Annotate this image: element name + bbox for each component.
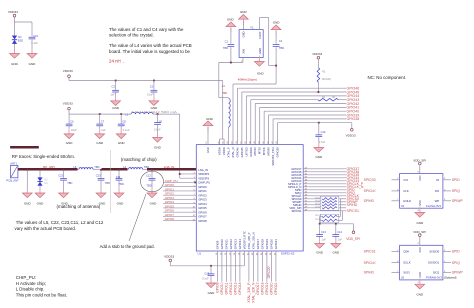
wire	[303, 183, 346, 185]
power VDD33 (VDD3P3 rail)	[68, 107, 71, 114]
junction	[153, 80, 155, 82]
divider line	[110, 150, 112, 213]
svg-text:C15: C15	[204, 271, 209, 275]
wire	[230, 251, 232, 282]
svg-text:XTAL_32K_N: XTAL_32K_N	[252, 282, 256, 303]
wire	[255, 104, 346, 145]
ground	[35, 187, 45, 198]
antenna ANT1	[10, 166, 18, 178]
capacitor C12	[149, 170, 156, 193]
diode D2 (ESD)	[37, 177, 42, 185]
svg-text:0.1uF: 0.1uF	[319, 140, 326, 144]
wire	[260, 107, 346, 144]
power VDD33 (VDDA rail)	[68, 75, 71, 81]
svg-text:TBD: TBD	[279, 46, 284, 50]
svg-text:ANT1: ANT1	[10, 162, 17, 166]
junction	[151, 169, 153, 171]
svg-text:1uF: 1uF	[101, 128, 106, 132]
svg-text:GPIO13: GPIO13	[234, 282, 238, 294]
wire	[31, 40, 33, 54]
capacitor C21	[29, 37, 36, 39]
capacitor C13	[316, 224, 323, 244]
svg-text:XTAL_N: XTAL_N	[231, 147, 235, 157]
svg-text:C22: C22	[58, 173, 63, 177]
junction	[319, 223, 321, 225]
junction	[120, 113, 122, 115]
wire	[303, 204, 346, 206]
wire	[242, 92, 346, 145]
svg-text:0.1uF: 0.1uF	[202, 277, 209, 281]
power VDD33 (top-left)	[13, 14, 16, 22]
wire	[303, 207, 346, 209]
ground	[147, 187, 157, 198]
svg-text:GND: GND	[150, 201, 158, 205]
svg-text:selection of the crystal.: selection of the crystal.	[109, 33, 154, 38]
wire	[230, 47, 232, 62]
capacitor C2	[151, 81, 158, 101]
wire	[303, 192, 346, 194]
svg-text:GND: GND	[227, 18, 235, 22]
capacitor C1	[228, 45, 235, 47]
svg-text:GPIO17: GPIO17	[256, 282, 260, 294]
junction	[118, 169, 120, 171]
inductor L4	[229, 98, 231, 144]
junction	[210, 265, 212, 267]
wire	[303, 195, 346, 197]
power VDD_SPI	[352, 231, 355, 234]
svg-text:VDD33: VDD33	[346, 133, 356, 137]
svg-text:SPIWP: SPIWP	[452, 271, 464, 275]
svg-text:C21: C21	[33, 34, 38, 38]
note RF traces	[10, 146, 39, 149]
crystal Y1	[239, 30, 263, 58]
capacitor C23	[98, 170, 105, 193]
capacitor C7	[96, 114, 103, 134]
wire VDD_SPI bus	[320, 223, 354, 225]
svg-text:0R: 0R	[332, 96, 335, 99]
ground	[114, 187, 124, 198]
svg-text:The value of L4 varies with th: The value of L4 varies with the actual P…	[109, 43, 192, 48]
svg-text:VDD33: VDD33	[312, 52, 322, 56]
wire	[221, 251, 223, 282]
svg-text:GPIO11: GPIO11	[224, 239, 228, 249]
svg-text:SPICLK: SPICLK	[364, 261, 377, 265]
ground	[95, 128, 105, 139]
svg-text:C14: C14	[337, 230, 342, 234]
svg-text:U0RXD: U0RXD	[249, 147, 253, 156]
svg-text:TBD: TBD	[94, 165, 99, 169]
svg-text:GPIO8: GPIO8	[198, 219, 207, 223]
wire	[163, 207, 196, 209]
svg-text:GND: GND	[24, 201, 32, 205]
svg-text:GND: GND	[206, 147, 210, 153]
svg-text:GPIO14: GPIO14	[238, 239, 242, 250]
wire	[163, 194, 196, 196]
svg-text:GND: GND	[332, 251, 340, 255]
wire	[303, 189, 346, 191]
junction	[157, 113, 159, 115]
wire VDD3P3_RTC	[170, 251, 244, 266]
inductor L2	[129, 168, 143, 170]
svg-text:GPIO9: GPIO9	[215, 240, 219, 249]
capacitor C22	[60, 170, 67, 193]
power VDD_SPI (U3)	[419, 162, 422, 173]
svg-text:GND: GND	[96, 141, 104, 145]
wire XOUT	[233, 18, 276, 145]
svg-text:1uF: 1uF	[338, 237, 343, 241]
svg-text:GPIO38: GPIO38	[276, 147, 280, 158]
resistor array R8-R9	[315, 214, 339, 223]
junction	[275, 65, 277, 67]
wire VDDA rail	[69, 81, 224, 145]
wire	[303, 171, 346, 173]
wire	[443, 190, 451, 192]
wire	[163, 181, 196, 183]
ground	[314, 142, 324, 153]
svg-text:C3: C3	[111, 85, 115, 89]
wire	[163, 211, 196, 213]
power VDD33 (pull-up)	[317, 57, 320, 68]
svg-text:SPIQ: SPIQ	[452, 189, 460, 193]
junction CHIP_PU pin	[194, 182, 196, 184]
wire VDD3P3_CPU	[278, 123, 352, 145]
svg-text:SIO3: SIO3	[403, 271, 410, 275]
svg-text:1uF: 1uF	[321, 237, 326, 241]
ground	[149, 95, 159, 106]
capacitor C11	[116, 170, 123, 193]
wire	[14, 44, 16, 54]
junction	[63, 169, 65, 171]
inductor L5	[79, 168, 93, 170]
svg-text:2.0nH@1GHz 500 mA: 2.0nH@1GHz 500 mA	[131, 110, 177, 114]
flash/psram U3	[400, 174, 443, 209]
svg-text:This pin could not be float.: This pin could not be float.	[16, 292, 67, 297]
svg-text:PSRAM-3V3: PSRAM-3V3	[426, 276, 442, 280]
wire	[392, 251, 400, 253]
wire RF trace thick 1	[18, 168, 78, 171]
capacitor C6	[66, 114, 73, 134]
svg-text:XTAL_P: XTAL_P	[227, 147, 231, 157]
wire	[15, 21, 33, 23]
svg-text:10uF: 10uF	[71, 128, 77, 132]
wire	[31, 22, 33, 36]
svg-text:SPID: SPID	[452, 178, 460, 182]
svg-text:ESP32-S3: ESP32-S3	[281, 252, 295, 256]
svg-text:C12: C12	[146, 173, 151, 177]
capacitor C4	[273, 45, 280, 47]
svg-text:NC: No component.: NC: No component.	[368, 75, 407, 80]
wire	[303, 198, 346, 200]
svg-text:GPIO45: GPIO45	[240, 147, 244, 158]
wire	[317, 82, 319, 92]
svg-text:C2: C2	[150, 85, 154, 89]
svg-text:C9: C9	[159, 119, 163, 123]
wire RF thin under L2	[128, 168, 129, 170]
svg-text:Add a stub to the ground pad.: Add a stub to the ground pad.	[100, 244, 155, 249]
power VDD33 (RTC)	[169, 259, 172, 266]
wire	[225, 251, 227, 282]
svg-text:GPIO20: GPIO20	[270, 282, 274, 294]
svg-text:SIO2: SIO2	[433, 271, 440, 275]
ground (U3)	[415, 207, 425, 218]
svg-text:C4: C4	[279, 39, 283, 43]
wire	[303, 180, 346, 182]
svg-text:DI: DI	[436, 178, 439, 182]
svg-text:GND: GND	[242, 31, 246, 37]
wire	[39, 170, 41, 178]
annotation line to ground pad note	[129, 194, 146, 241]
svg-text:GND: GND	[29, 62, 37, 66]
wire	[392, 200, 400, 202]
svg-text:GND: GND	[258, 48, 262, 54]
ground	[331, 238, 341, 249]
svg-text:XOUT: XOUT	[258, 31, 262, 39]
svg-text:TBD: TBD	[67, 181, 72, 185]
svg-text:GND: GND	[273, 21, 281, 25]
svg-text:HOLD: HOLD	[403, 199, 411, 203]
junction	[99, 113, 101, 115]
ground	[111, 95, 121, 106]
capacitor C3	[112, 81, 119, 101]
ground	[64, 128, 74, 139]
wire	[163, 190, 196, 192]
ground (crystal left)	[226, 22, 236, 44]
junction	[318, 122, 320, 124]
svg-text:RF traces: Single-ended 50ohm.: RF traces: Single-ended 50ohm.	[12, 154, 75, 159]
wire	[443, 262, 451, 264]
svg-text:GND: GND	[416, 293, 424, 297]
power VDD_SPI (U5)	[419, 234, 422, 245]
wire VDD3P3 rail	[69, 114, 180, 178]
svg-text:U0TXD: U0TXD	[244, 147, 248, 156]
svg-text:GND: GND	[117, 201, 125, 205]
wire	[443, 251, 451, 253]
wire	[251, 100, 346, 145]
svg-text:SCLK: SCLK	[403, 261, 410, 265]
svg-text:VDD33: VDD33	[8, 10, 18, 14]
svg-text:MTMS: MTMS	[267, 147, 271, 155]
svg-text:TBD: TBD	[223, 46, 228, 50]
svg-text:XTAL_32K_P: XTAL_32K_P	[247, 232, 251, 249]
svg-text:GPIO20: GPIO20	[267, 266, 271, 278]
svg-text:MTCK: MTCK	[262, 147, 266, 155]
svg-text:U5: U5	[401, 276, 405, 280]
svg-text:H Activate chip;: H Activate chip;	[16, 281, 46, 286]
svg-text:GND: GND	[208, 291, 216, 295]
resistor array R4-R7	[315, 196, 339, 210]
ground (crystal top)	[239, 15, 249, 30]
svg-text:XTAL_32K_N: XTAL_32K_N	[251, 232, 255, 249]
ground (crystal pin2)	[255, 56, 265, 67]
svg-text:/CS: /CS	[403, 178, 408, 182]
svg-text:MTDO: MTDO	[253, 146, 257, 155]
svg-text:TBD: TBD	[146, 184, 151, 188]
resistor R2	[318, 98, 339, 100]
svg-text:FLASH-3V3: FLASH-3V3	[426, 204, 441, 208]
resistor R3 NC	[317, 68, 320, 83]
svg-text:GND: GND	[112, 106, 120, 110]
wire	[216, 251, 218, 282]
svg-text:40MHz(10ppm): 40MHz(10ppm)	[238, 78, 257, 82]
wire RF trace thick 2	[102, 168, 128, 171]
svg-text:GPIO21: GPIO21	[274, 239, 278, 250]
svg-text:GPIO20: GPIO20	[269, 239, 273, 250]
svg-text:GND: GND	[11, 62, 19, 66]
svg-text:24 nH: 24 nH	[109, 58, 121, 63]
svg-text:GND: GND	[206, 117, 214, 121]
ground (U5)	[415, 278, 425, 289]
wire	[303, 201, 346, 203]
svg-text:(matching of antenna): (matching of antenna)	[57, 204, 101, 209]
svg-text:10uF: 10uF	[147, 93, 153, 97]
svg-text:R6 20R: R6 20R	[315, 203, 322, 205]
wire	[26, 170, 28, 193]
wire	[443, 200, 451, 202]
svg-text:SPIWP: SPIWP	[452, 199, 464, 203]
capacitor C8	[118, 114, 125, 134]
wire	[270, 251, 272, 282]
wire	[257, 251, 259, 282]
svg-text:VDDA: VDDA	[222, 147, 226, 155]
wire	[443, 179, 451, 181]
svg-text:GND: GND	[419, 200, 422, 206]
svg-text:1uF: 1uF	[110, 93, 115, 97]
power VDD33 (CPU)	[351, 129, 354, 132]
wire	[303, 177, 346, 179]
svg-text:SPIQ: SPIQ	[452, 261, 460, 265]
svg-text:SPIHD: SPIHD	[364, 271, 375, 275]
svg-text:GPIO13: GPIO13	[233, 239, 237, 250]
junction	[115, 80, 117, 82]
svg-text:VDD33: VDD33	[63, 102, 73, 106]
wire	[303, 186, 346, 188]
svg-text:VDD33: VDD33	[164, 254, 174, 258]
svg-text:C13: C13	[321, 230, 326, 234]
junction	[335, 223, 337, 225]
svg-text:VDD_SPI: VDD_SPI	[413, 230, 426, 234]
op-amp U1 ESP32-S3 main IC body	[196, 145, 303, 251]
svg-text:GPIO14: GPIO14	[238, 282, 242, 294]
svg-text:GND: GND	[37, 201, 45, 205]
wire XIN	[219, 58, 243, 98]
wire	[273, 119, 346, 145]
svg-text:U3: U3	[401, 204, 405, 208]
wire RF thin under L5	[78, 168, 80, 170]
wire	[252, 251, 254, 282]
wire	[269, 115, 346, 145]
svg-text:XIN: XIN	[242, 49, 246, 54]
svg-text:C7: C7	[101, 119, 105, 123]
ground	[116, 128, 126, 139]
junction	[26, 169, 28, 171]
ground	[59, 187, 69, 198]
ground	[315, 238, 325, 249]
wire	[275, 251, 277, 282]
ground (crystal right)	[271, 25, 281, 44]
ground	[96, 187, 106, 198]
svg-text:R7 20R: R7 20R	[315, 206, 322, 208]
svg-text:GPIO12: GPIO12	[229, 282, 233, 294]
wire	[237, 88, 346, 144]
ground	[10, 48, 20, 59]
svg-text:SPICS1: SPICS1	[291, 209, 301, 213]
wire	[163, 186, 196, 188]
svg-text:U1: U1	[198, 252, 202, 256]
wire	[392, 272, 400, 274]
svg-text:GPIO19: GPIO19	[265, 239, 269, 250]
svg-text:MTDI: MTDI	[258, 147, 262, 154]
svg-text:SPICS0: SPICS0	[364, 178, 376, 182]
wire	[163, 220, 196, 222]
svg-text:GPIO46: GPIO46	[235, 147, 239, 158]
svg-text:GPIO17: GPIO17	[256, 239, 260, 250]
wire	[392, 190, 400, 192]
wire	[163, 198, 196, 200]
inductor L1	[131, 112, 153, 114]
svg-text:(Optional): (Optional)	[444, 276, 457, 280]
wire	[392, 179, 400, 181]
wire	[266, 251, 268, 282]
ground pin 57	[203, 121, 213, 145]
svg-text:R5 20R: R5 20R	[315, 200, 322, 202]
svg-text:CE#: CE#	[403, 250, 409, 254]
svg-text:VDD: VDD	[419, 175, 422, 180]
capacitor C10	[315, 123, 322, 148]
ground	[27, 48, 37, 59]
capacitor C15	[208, 266, 215, 283]
svg-text:VDD3P3_CPU: VDD3P3_CPU	[271, 147, 275, 165]
wire	[303, 210, 346, 212]
flash/psram U5	[400, 245, 443, 280]
svg-text:GPIO8: GPIO8	[165, 217, 175, 221]
wire	[261, 251, 263, 282]
wire	[234, 251, 236, 282]
svg-text:GND: GND	[419, 272, 422, 278]
svg-text:GND: GND	[66, 141, 74, 145]
junction	[100, 169, 102, 171]
ground	[22, 187, 32, 198]
junction	[230, 62, 232, 64]
svg-text:SPICS1: SPICS1	[347, 209, 360, 213]
svg-text:SPICLK: SPICLK	[364, 189, 377, 193]
svg-text:GND: GND	[416, 221, 424, 225]
svg-text:GPIO12: GPIO12	[229, 239, 233, 250]
wire	[303, 174, 346, 176]
capacitor C9	[154, 114, 161, 137]
wire	[443, 272, 451, 274]
svg-text:D1: D1	[18, 35, 22, 39]
svg-text:VDD: VDD	[419, 247, 422, 252]
svg-text:C8: C8	[122, 119, 126, 123]
diode D1 (ESD)	[12, 36, 17, 44]
junction	[179, 173, 181, 175]
wire pullups	[320, 199, 343, 224]
wire	[248, 251, 250, 282]
svg-text:SPICS1: SPICS1	[364, 250, 376, 254]
svg-text:TBD: TBD	[119, 182, 124, 186]
ground	[206, 277, 216, 288]
svg-text:WP: WP	[435, 199, 440, 203]
svg-text:GPIO38: GPIO38	[347, 117, 360, 121]
svg-text:ESD: ESD	[18, 39, 23, 43]
capacitor C14	[332, 224, 339, 244]
svg-text:GPIO18: GPIO18	[260, 239, 264, 250]
svg-text:0.1uF: 0.1uF	[123, 128, 130, 132]
svg-text:GND: GND	[154, 146, 162, 150]
svg-text:VDD3P3_RTC: VDD3P3_RTC	[242, 231, 246, 249]
wire	[303, 168, 346, 170]
svg-text:GND: GND	[240, 10, 248, 14]
